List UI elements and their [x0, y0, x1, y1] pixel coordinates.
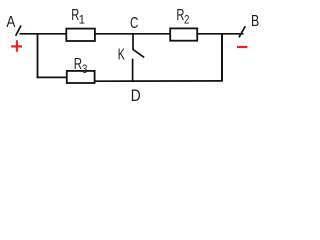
- svg-text:K: K: [118, 47, 125, 64]
- svg-text:2: 2: [184, 14, 189, 26]
- svg-text:B: B: [251, 13, 259, 30]
- svg-text:1: 1: [79, 14, 85, 26]
- svg-text:C: C: [130, 15, 138, 32]
- svg-text:3: 3: [82, 62, 88, 76]
- svg-text:R: R: [74, 56, 82, 73]
- svg-text:A: A: [6, 14, 16, 31]
- svg-text:D: D: [131, 86, 141, 105]
